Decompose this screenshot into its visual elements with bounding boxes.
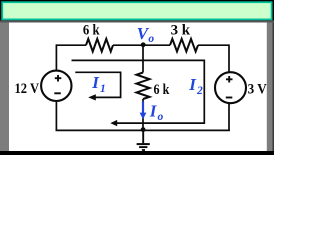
resistor R3 6k vertical bbox=[137, 73, 150, 100]
source V1 12V circle bbox=[41, 71, 71, 101]
wire middle vertical lower bbox=[142, 99, 144, 130]
minus sign V2 bbox=[226, 97, 233, 99]
node bottom dot bbox=[141, 127, 146, 132]
bottom black border bbox=[0, 151, 274, 155]
dark line under title bar bbox=[0, 20, 274, 22]
wire top-middle segment bbox=[113, 44, 170, 46]
minus sign V1 bbox=[54, 92, 61, 94]
wire bottom rail bbox=[56, 129, 230, 131]
wire top-left segment bbox=[56, 44, 86, 46]
wire left vertical lower bbox=[55, 101, 57, 130]
wire left vertical upper bbox=[55, 44, 57, 71]
ground bbox=[137, 130, 150, 150]
svg-text:3 k: 3 k bbox=[171, 23, 191, 39]
wire top-right segment bbox=[198, 44, 229, 46]
wire right vertical upper bbox=[228, 44, 230, 72]
resistor R1 6k horizontal bbox=[86, 39, 113, 52]
resistor R2 3k horizontal bbox=[170, 39, 198, 52]
svg-text:2: 2 bbox=[196, 85, 203, 97]
svg-text:o: o bbox=[148, 33, 154, 45]
source V2 3V circle bbox=[215, 72, 246, 103]
plus sign V1 bbox=[55, 75, 62, 82]
title bar mint panel bbox=[2, 2, 271, 19]
wire right vertical lower bbox=[228, 103, 230, 130]
svg-text:1: 1 bbox=[100, 83, 106, 95]
right gray strip bbox=[267, 23, 274, 152]
svg-text:6 k: 6 k bbox=[154, 82, 171, 98]
title bar black frame bbox=[0, 0, 274, 21]
node Vo dot bbox=[141, 42, 146, 47]
loop indicator I2 (outer) bbox=[72, 60, 205, 126]
wire middle vertical upper bbox=[142, 45, 144, 72]
svg-text:12 V: 12 V bbox=[15, 81, 40, 97]
left gray strip bbox=[0, 23, 9, 152]
window background bbox=[0, 0, 274, 155]
right dark edge bbox=[273, 23, 275, 152]
plus sign V2 bbox=[226, 76, 233, 83]
loop indicator I1 bbox=[75, 72, 120, 100]
svg-text:3 V: 3 V bbox=[248, 81, 268, 97]
current arrow Io blue bbox=[142, 102, 144, 114]
svg-text:6 k: 6 k bbox=[83, 23, 101, 39]
svg-text:o: o bbox=[158, 111, 164, 123]
